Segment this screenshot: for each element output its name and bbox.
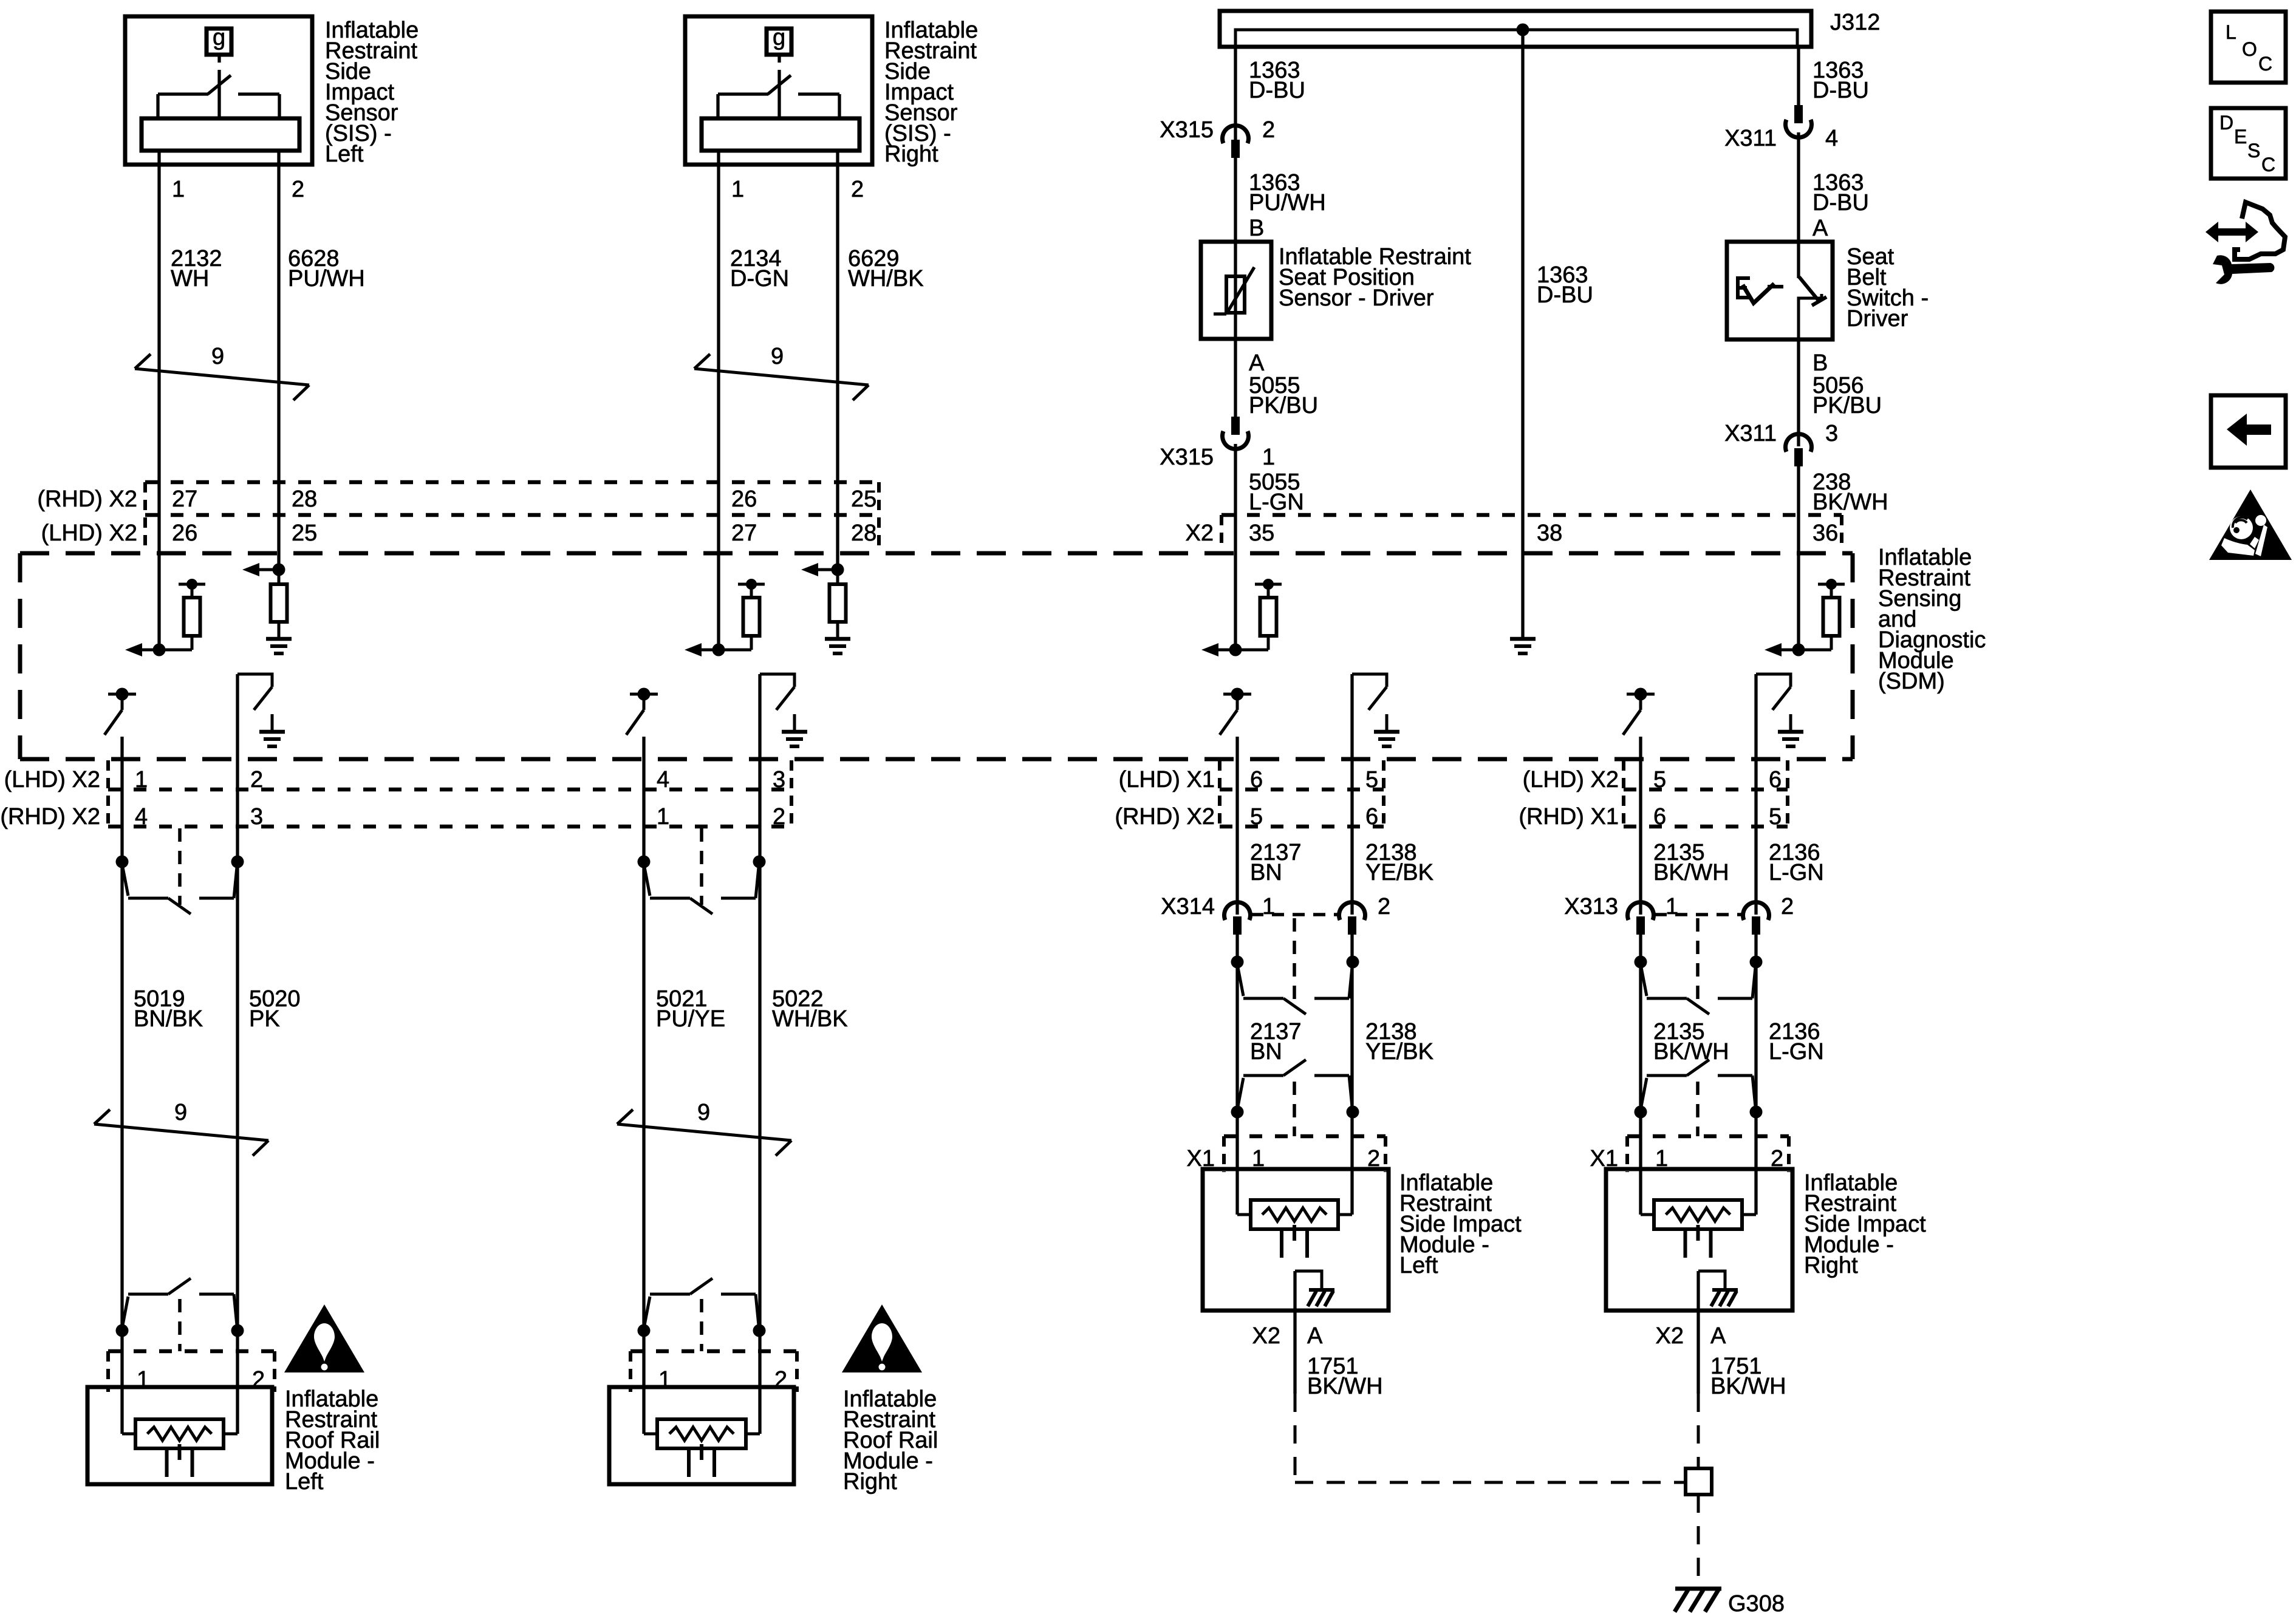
lower row bottom A B bbox=[108, 825, 791, 829]
seat belt buckle icon E bbox=[1736, 276, 1740, 299]
in-line connector X314 pin 2 bbox=[1339, 902, 1365, 920]
wire 1363 D-BU from J312 junction bbox=[1521, 30, 1524, 639]
roof rail left bracket R bbox=[273, 1351, 276, 1392]
sensor A g-box bbox=[207, 29, 231, 55]
J312 internal bus wire bbox=[1235, 30, 1797, 49]
connector X313 body dash bbox=[1655, 913, 1741, 916]
svg-text:S: S bbox=[2247, 140, 2260, 162]
seat belt buckle icon check bbox=[1743, 284, 1774, 303]
svg-text:A: A bbox=[1813, 216, 1828, 241]
lower row separator A B bbox=[108, 788, 791, 792]
wire 1363 D-BU from J312 right bbox=[1797, 47, 1800, 106]
sensor B right rail drop bbox=[838, 94, 841, 120]
warning triangle roof rail left bbox=[284, 1304, 364, 1372]
svg-text:4: 4 bbox=[135, 804, 148, 830]
in-line connector X314 pin 1 bbox=[1225, 902, 1251, 920]
wire branch C right output bbox=[1350, 674, 1353, 915]
splice square bbox=[1686, 1468, 1712, 1495]
svg-text:D-GN: D-GN bbox=[730, 266, 789, 291]
clip link below X313 bbox=[1696, 918, 1700, 1007]
wire 2136 L-GN to module bbox=[1754, 962, 1757, 1112]
svg-text:1: 1 bbox=[657, 804, 669, 830]
svg-text:27: 27 bbox=[731, 520, 757, 546]
lower row separator C bbox=[1220, 788, 1384, 792]
back arrow icon box bbox=[2211, 395, 2286, 468]
svg-text:Left: Left bbox=[285, 1469, 324, 1495]
DESC icon box bbox=[2211, 108, 2286, 179]
wire 2136 L-GN below X313 bbox=[1754, 933, 1757, 962]
seat position sensor rheostat body bbox=[1226, 276, 1245, 313]
SDM output corner branch D bbox=[1756, 674, 1791, 687]
svg-text:L-GN: L-GN bbox=[1769, 860, 1824, 885]
wire 2138 YE/BK to module bbox=[1350, 962, 1353, 1112]
LOC icon box bbox=[2211, 12, 2286, 83]
sensor B left rail drop bbox=[716, 94, 719, 120]
SDM input termination wire 2134 bbox=[685, 643, 702, 656]
connector row line RHD X2 bbox=[145, 480, 879, 485]
svg-text:BN/BK: BN/BK bbox=[134, 1006, 203, 1032]
svg-text:9: 9 bbox=[771, 344, 784, 369]
svg-text:BN: BN bbox=[1250, 1039, 1282, 1065]
Inflatable Restraint Side Impact Sensor (SIS) Left box bbox=[125, 16, 312, 165]
sensor B actuator stem bbox=[777, 70, 781, 118]
SRS warning triangle icon bbox=[2209, 489, 2292, 560]
wire 2137 BN below X314 bbox=[1235, 933, 1239, 962]
roof rail right wire 1 into squib bbox=[642, 1331, 645, 1434]
shorting clip below SDM branch A bbox=[116, 856, 129, 868]
SDM input termination wire 6628 bbox=[273, 564, 285, 576]
svg-text:(LHD) X2: (LHD) X2 bbox=[41, 520, 137, 546]
svg-text:A: A bbox=[1307, 1323, 1323, 1349]
svg-text:Left: Left bbox=[1399, 1253, 1438, 1278]
SDM output corner branch C bbox=[1352, 674, 1387, 687]
lower row bottom C bbox=[1220, 825, 1384, 829]
in-line connector X313 pin 1 bbox=[1628, 902, 1654, 920]
svg-text:X2: X2 bbox=[1252, 1323, 1280, 1349]
SDM output switch branch C bbox=[1223, 693, 1251, 696]
wire 5019 BN/BK bbox=[120, 862, 123, 1331]
svg-text:5: 5 bbox=[1769, 804, 1782, 830]
svg-text:9: 9 bbox=[211, 344, 224, 369]
wire 5020 PK bbox=[236, 862, 239, 1331]
SIS left bracket L bbox=[1222, 1136, 1226, 1172]
wire-count crossing 9 branch B lower bbox=[617, 1124, 791, 1140]
svg-text:2: 2 bbox=[1781, 894, 1794, 919]
svg-text:BK/WH: BK/WH bbox=[1813, 489, 1888, 515]
svg-text:2: 2 bbox=[1378, 894, 1390, 919]
SDM module box left edge bbox=[18, 553, 22, 759]
seat belt switch wire upper bbox=[1797, 242, 1800, 278]
SIS module right connector row X1 bbox=[1627, 1134, 1789, 1139]
wire-count crossing 9 branch B bbox=[694, 369, 869, 385]
Inflatable Restraint Roof Rail Module Right box bbox=[609, 1387, 794, 1484]
svg-text:YE/BK: YE/BK bbox=[1365, 1039, 1433, 1065]
svg-text:2: 2 bbox=[250, 767, 263, 793]
wire 2134 D-GN from sensor B pin 1 bbox=[717, 151, 720, 650]
wire 2137 BN to module bbox=[1235, 962, 1239, 1112]
roof rail module right squib bbox=[644, 1433, 657, 1436]
roof rail left connector row bbox=[108, 1349, 275, 1354]
roof rail left bracket L bbox=[106, 1351, 110, 1392]
svg-text:27: 27 bbox=[172, 486, 197, 512]
seat position sensor rheostat foot bbox=[1214, 312, 1226, 315]
svg-text:A: A bbox=[1249, 350, 1265, 376]
svg-text:(RHD) X2: (RHD) X2 bbox=[1115, 804, 1215, 830]
SRS triangle airbag circle bbox=[2230, 516, 2253, 539]
double arrow icon bbox=[2205, 222, 2258, 242]
SDM input termination wire 2132 bbox=[125, 643, 142, 656]
svg-text:2: 2 bbox=[851, 177, 864, 202]
svg-text:WH/BK: WH/BK bbox=[848, 266, 924, 291]
Inflatable Restraint Side Impact Sensor (SIS) Right box bbox=[685, 16, 872, 165]
svg-text:(LHD) X1: (LHD) X1 bbox=[1119, 767, 1215, 793]
clip link branch A upper bbox=[178, 828, 182, 905]
clip link SIS module left bbox=[1293, 1082, 1296, 1136]
svg-text:6: 6 bbox=[1365, 804, 1378, 830]
Inflatable Restraint Side Impact Module Left box bbox=[1203, 1169, 1389, 1311]
clip link branch B upper bbox=[700, 828, 703, 905]
svg-text:38: 38 bbox=[1537, 520, 1562, 546]
svg-text:X315: X315 bbox=[1160, 117, 1214, 143]
connector row line LHD X2 bbox=[145, 513, 879, 517]
svg-text:C: C bbox=[2258, 53, 2272, 75]
sensor A left rail drop bbox=[156, 94, 159, 120]
SDM input termination wire 6629 bbox=[832, 564, 844, 576]
seat belt switch link dash bbox=[1768, 285, 1783, 288]
svg-text:BK/WH: BK/WH bbox=[1307, 1374, 1383, 1399]
lower row bracket left C bbox=[1218, 760, 1221, 827]
svg-text:D-BU: D-BU bbox=[1813, 78, 1869, 103]
svg-text:O: O bbox=[2242, 38, 2257, 60]
clip link roof rail left bbox=[178, 1299, 182, 1351]
svg-text:PK/BU: PK/BU bbox=[1813, 393, 1882, 418]
seat belt switch blade bbox=[1799, 277, 1819, 301]
SIS left wire 1 into squib bbox=[1235, 1112, 1239, 1215]
svg-text:PK/BU: PK/BU bbox=[1249, 393, 1318, 418]
svg-text:25: 25 bbox=[292, 520, 317, 546]
sensor B connector bar bbox=[702, 118, 859, 151]
wire 2135 BK/WH below X313 bbox=[1639, 933, 1642, 962]
SDM output switch branch D bbox=[1627, 693, 1655, 696]
svg-text:6: 6 bbox=[1769, 767, 1782, 793]
shorting clip below X313 bbox=[1635, 956, 1647, 969]
wire 2135 BK/WH to module bbox=[1639, 962, 1642, 1112]
shorting clip at SIS module left bbox=[1231, 1106, 1244, 1119]
svg-text:E: E bbox=[2234, 126, 2247, 148]
svg-text:3: 3 bbox=[250, 804, 263, 830]
svg-text:1: 1 bbox=[1666, 894, 1678, 919]
car panel icon outline bbox=[2235, 202, 2285, 259]
svg-text:26: 26 bbox=[172, 520, 197, 546]
svg-text:3: 3 bbox=[773, 767, 785, 793]
lower row bracket right B bbox=[790, 760, 793, 827]
wire branch D left output bbox=[1639, 737, 1642, 915]
svg-text:2: 2 bbox=[1262, 117, 1275, 143]
roof rail module left squib bbox=[122, 1433, 135, 1436]
sensor B switch blade bbox=[768, 75, 791, 94]
svg-text:9: 9 bbox=[174, 1100, 187, 1125]
svg-text:G308: G308 bbox=[1728, 1591, 1785, 1616]
SDM output corner branch B bbox=[760, 674, 794, 687]
seat belt switch blade tick bbox=[1812, 297, 1826, 305]
wire 5022 WH/BK bbox=[758, 862, 761, 1331]
SDM input termination wire 5055 bbox=[1201, 643, 1218, 656]
svg-text:4: 4 bbox=[657, 767, 669, 793]
svg-text:1: 1 bbox=[1262, 894, 1275, 919]
dashed wire 1751 left horizontal bbox=[1295, 1481, 1684, 1484]
svg-text:X311: X311 bbox=[1724, 421, 1777, 446]
clip link below X314 bbox=[1293, 918, 1296, 1007]
svg-text:(RHD) X2: (RHD) X2 bbox=[37, 486, 137, 512]
svg-text:Right: Right bbox=[843, 1469, 897, 1495]
svg-text:5: 5 bbox=[1250, 804, 1263, 830]
svg-text:X314: X314 bbox=[1161, 894, 1215, 919]
warning triangle roof rail right bbox=[842, 1304, 922, 1372]
svg-text:D-BU: D-BU bbox=[1813, 190, 1869, 216]
in-line connector X315 pin 1 bbox=[1222, 431, 1248, 449]
wire 6628 PU/WH from sensor A pin 2 bbox=[277, 151, 280, 570]
SIS module right case ground bbox=[1698, 1271, 1725, 1290]
svg-text:(RHD) X1: (RHD) X1 bbox=[1519, 804, 1619, 830]
seat position sensor rheostat arrow bbox=[1226, 267, 1254, 314]
Inflatable Restraint Side Impact Module Right box bbox=[1606, 1169, 1792, 1311]
svg-text:X311: X311 bbox=[1724, 126, 1777, 151]
SDM module box right edge bbox=[1851, 553, 1855, 759]
wire 238 BK/WH bbox=[1797, 466, 1800, 650]
wire 6629 WH/BK from sensor B pin 2 bbox=[836, 151, 839, 570]
wire 5056 PK/BU bbox=[1797, 339, 1800, 446]
wire 1363 D-BU below X311 bbox=[1797, 132, 1800, 242]
connector row bracket X2 right bbox=[1840, 515, 1843, 550]
SDM output switch branch B bbox=[630, 693, 658, 696]
svg-text:C: C bbox=[2261, 154, 2275, 176]
svg-text:L-GN: L-GN bbox=[1249, 489, 1304, 515]
svg-text:WH/BK: WH/BK bbox=[772, 1006, 848, 1032]
Inflatable Restraint Seat Position Sensor Driver box bbox=[1201, 242, 1271, 339]
SIS right wire 2 into squib bbox=[1754, 1112, 1757, 1215]
svg-text:X315: X315 bbox=[1160, 445, 1214, 470]
svg-text:X2: X2 bbox=[1186, 520, 1214, 546]
SIS left bracket R bbox=[1384, 1136, 1387, 1172]
svg-text:PU/WH: PU/WH bbox=[1249, 190, 1326, 216]
svg-text:L-GN: L-GN bbox=[1769, 1039, 1824, 1065]
svg-text:BN: BN bbox=[1250, 860, 1282, 885]
wire 2138 YE/BK below X314 bbox=[1350, 933, 1353, 962]
clip link SIS module right bbox=[1696, 1082, 1700, 1136]
lower row bracket left D bbox=[1622, 760, 1625, 827]
svg-text:35: 35 bbox=[1249, 520, 1274, 546]
svg-text:5: 5 bbox=[1365, 767, 1378, 793]
shorting clip at roof rail module left bbox=[116, 1325, 129, 1337]
SDM module box top edge bbox=[20, 551, 1853, 556]
ground G308 symbol bbox=[1675, 1587, 1721, 1591]
svg-text:6: 6 bbox=[1250, 767, 1263, 793]
lower row bracket left A bbox=[106, 760, 110, 827]
dashed wire 1751 right to splice bbox=[1697, 1394, 1700, 1468]
SIS module left connector row X1 bbox=[1224, 1134, 1385, 1139]
sensor B left contact rail bbox=[718, 92, 768, 95]
connector row bracket X2 left bbox=[1220, 515, 1223, 550]
wire 1363 D-BU from J312 left bbox=[1234, 47, 1237, 140]
roof rail right bracket R bbox=[795, 1351, 799, 1392]
svg-text:X313: X313 bbox=[1564, 894, 1618, 919]
roof rail left wire 2 into squib bbox=[236, 1331, 239, 1434]
wire 5055 PK/BU bbox=[1234, 339, 1237, 418]
roof rail left wire 1 into squib bbox=[120, 1331, 123, 1434]
svg-text:A: A bbox=[1710, 1323, 1726, 1349]
sensor A left contact rail bbox=[158, 92, 208, 95]
lower row bottom D bbox=[1624, 825, 1788, 829]
wire branch C left output bbox=[1235, 737, 1239, 915]
svg-text:PK: PK bbox=[249, 1006, 280, 1032]
sensor B dashed stub under g bbox=[777, 55, 781, 63]
wire branch D right output bbox=[1754, 674, 1757, 915]
SDM module box bottom edge bbox=[20, 757, 1853, 762]
svg-text:B: B bbox=[1249, 216, 1264, 241]
svg-text:BK/WH: BK/WH bbox=[1653, 860, 1729, 885]
svg-text:g: g bbox=[773, 25, 785, 50]
svg-text:Driver: Driver bbox=[1847, 306, 1908, 332]
svg-text:Left: Left bbox=[325, 141, 364, 167]
svg-text:1: 1 bbox=[1262, 445, 1275, 470]
svg-text:1: 1 bbox=[135, 767, 148, 793]
SRS triangle occupant figure bbox=[2255, 515, 2266, 526]
SIS right bracket R bbox=[1787, 1136, 1791, 1172]
SDM ground termination wire 1363 bbox=[1510, 637, 1536, 641]
in-line connector X315 pin 2 bbox=[1222, 126, 1248, 143]
seat position sensor internal wire bbox=[1234, 242, 1237, 339]
svg-text:L: L bbox=[2226, 21, 2236, 43]
sensor B g-box bbox=[767, 29, 791, 55]
SIS left wire 2 into squib bbox=[1350, 1112, 1353, 1215]
svg-text:PU/YE: PU/YE bbox=[656, 1006, 725, 1032]
svg-text:D-BU: D-BU bbox=[1537, 282, 1593, 308]
svg-text:X2: X2 bbox=[1656, 1323, 1684, 1349]
svg-text:26: 26 bbox=[731, 486, 757, 512]
svg-text:1: 1 bbox=[172, 177, 185, 202]
wire-count crossing 9 branch A bbox=[135, 369, 309, 385]
svg-text:3: 3 bbox=[1825, 421, 1838, 446]
svg-text:Right: Right bbox=[884, 141, 938, 167]
SIS right output wire X2-A bbox=[1696, 1271, 1700, 1394]
SIS right wire 1 into squib bbox=[1639, 1112, 1642, 1215]
svg-text:D-BU: D-BU bbox=[1249, 78, 1305, 103]
svg-text:25: 25 bbox=[851, 486, 876, 512]
wire branch B right output bbox=[758, 674, 761, 862]
wire branch B left output bbox=[642, 737, 645, 862]
roof rail right wire 2 into squib bbox=[758, 1331, 761, 1434]
dashed wire 1751 left vertical bbox=[1294, 1394, 1297, 1482]
svg-text:YE/BK: YE/BK bbox=[1365, 860, 1433, 885]
SIS right bracket L bbox=[1625, 1136, 1629, 1172]
Seat Belt Switch Driver box bbox=[1727, 242, 1833, 339]
wire 2132 WH from sensor A pin 1 bbox=[157, 151, 160, 650]
svg-text:BK/WH: BK/WH bbox=[1653, 1039, 1729, 1065]
svg-text:6: 6 bbox=[1653, 804, 1666, 830]
lower row bracket right C bbox=[1382, 760, 1385, 827]
svg-text:2: 2 bbox=[773, 804, 785, 830]
SIS left output wire X2-A bbox=[1293, 1271, 1296, 1394]
connector row bracket left bbox=[143, 482, 147, 550]
in-line connector X311 pin 4 bbox=[1786, 120, 1812, 137]
svg-text:4: 4 bbox=[1825, 126, 1838, 151]
shorting clip at roof rail module right bbox=[638, 1325, 651, 1337]
SDM output corner branch A bbox=[237, 674, 272, 687]
svg-text:g: g bbox=[213, 25, 225, 50]
svg-text:Right: Right bbox=[1804, 1253, 1858, 1278]
svg-text:9: 9 bbox=[697, 1100, 710, 1125]
shorting clip at SIS module right bbox=[1635, 1106, 1647, 1119]
svg-text:B: B bbox=[1813, 350, 1828, 376]
svg-text:28: 28 bbox=[292, 486, 317, 512]
lower row separator D bbox=[1624, 788, 1788, 792]
wrench icon bbox=[2213, 255, 2274, 284]
SIS module left case ground bbox=[1295, 1271, 1322, 1290]
connector X314 body dash bbox=[1251, 913, 1338, 916]
SDM input termination wire 238 bbox=[1765, 643, 1782, 656]
svg-text:PU/WH: PU/WH bbox=[288, 266, 365, 291]
sensor B right contact rail bbox=[798, 92, 839, 95]
SIS module right squib bbox=[1641, 1213, 1654, 1216]
in-line connector X313 pin 2 bbox=[1743, 902, 1769, 920]
lower row bracket right D bbox=[1786, 760, 1789, 827]
seat belt switch lower contact bbox=[1799, 294, 1822, 339]
shorting clip below SDM branch B bbox=[638, 856, 651, 868]
svg-text:(SDM): (SDM) bbox=[1878, 669, 1945, 694]
connector row bracket right bbox=[877, 482, 881, 550]
connector row line X2 SDM bbox=[1221, 513, 1842, 517]
svg-text:36: 36 bbox=[1813, 520, 1838, 546]
svg-text:(LHD) X2: (LHD) X2 bbox=[1523, 767, 1619, 793]
svg-text:(RHD) X2: (RHD) X2 bbox=[0, 804, 100, 830]
J312 bus junction dot bbox=[1517, 24, 1529, 36]
clip link roof rail right bbox=[700, 1299, 703, 1351]
wire 5021 PU/YE bbox=[642, 862, 645, 1331]
svg-text:5: 5 bbox=[1653, 767, 1666, 793]
wire-count crossing 9 branch A lower bbox=[94, 1124, 268, 1140]
wire branch A right output bbox=[236, 674, 239, 862]
sensor A right rail drop bbox=[278, 94, 281, 120]
dashed wire 1751 to G308 bbox=[1697, 1495, 1700, 1585]
SIS module left squib bbox=[1237, 1213, 1251, 1216]
sensor A dashed stub under g bbox=[217, 55, 220, 63]
Inflatable Restraint Roof Rail Module Left box bbox=[87, 1387, 272, 1484]
SDM output switch branch A bbox=[108, 693, 136, 696]
svg-text:1: 1 bbox=[731, 177, 744, 202]
svg-text:J312: J312 bbox=[1830, 10, 1880, 35]
wire 5055 L-GN bbox=[1234, 444, 1237, 650]
back arrow icon bbox=[2227, 414, 2271, 446]
svg-text:28: 28 bbox=[851, 520, 876, 546]
svg-text:BK/WH: BK/WH bbox=[1710, 1374, 1786, 1399]
wire branch A left output bbox=[120, 737, 123, 862]
svg-text:WH: WH bbox=[171, 266, 209, 291]
shorting clip below X314 bbox=[1231, 956, 1244, 969]
svg-text:(LHD) X2: (LHD) X2 bbox=[4, 767, 100, 793]
svg-text:D: D bbox=[2219, 112, 2233, 134]
wire 1363 PU/WH bbox=[1234, 157, 1237, 242]
sensor A actuator stem bbox=[217, 70, 220, 118]
in-line connector X311 pin 3 bbox=[1786, 434, 1812, 452]
svg-text:Sensor - Driver: Sensor - Driver bbox=[1279, 285, 1434, 311]
roof rail right bracket L bbox=[629, 1351, 632, 1392]
splice pack J312 housing bbox=[1220, 11, 1811, 47]
roof rail right connector row bbox=[630, 1349, 797, 1354]
sensor A switch blade bbox=[208, 75, 231, 94]
sensor A connector bar bbox=[142, 118, 299, 151]
svg-text:2: 2 bbox=[292, 177, 304, 202]
sensor A right contact rail bbox=[238, 92, 279, 95]
